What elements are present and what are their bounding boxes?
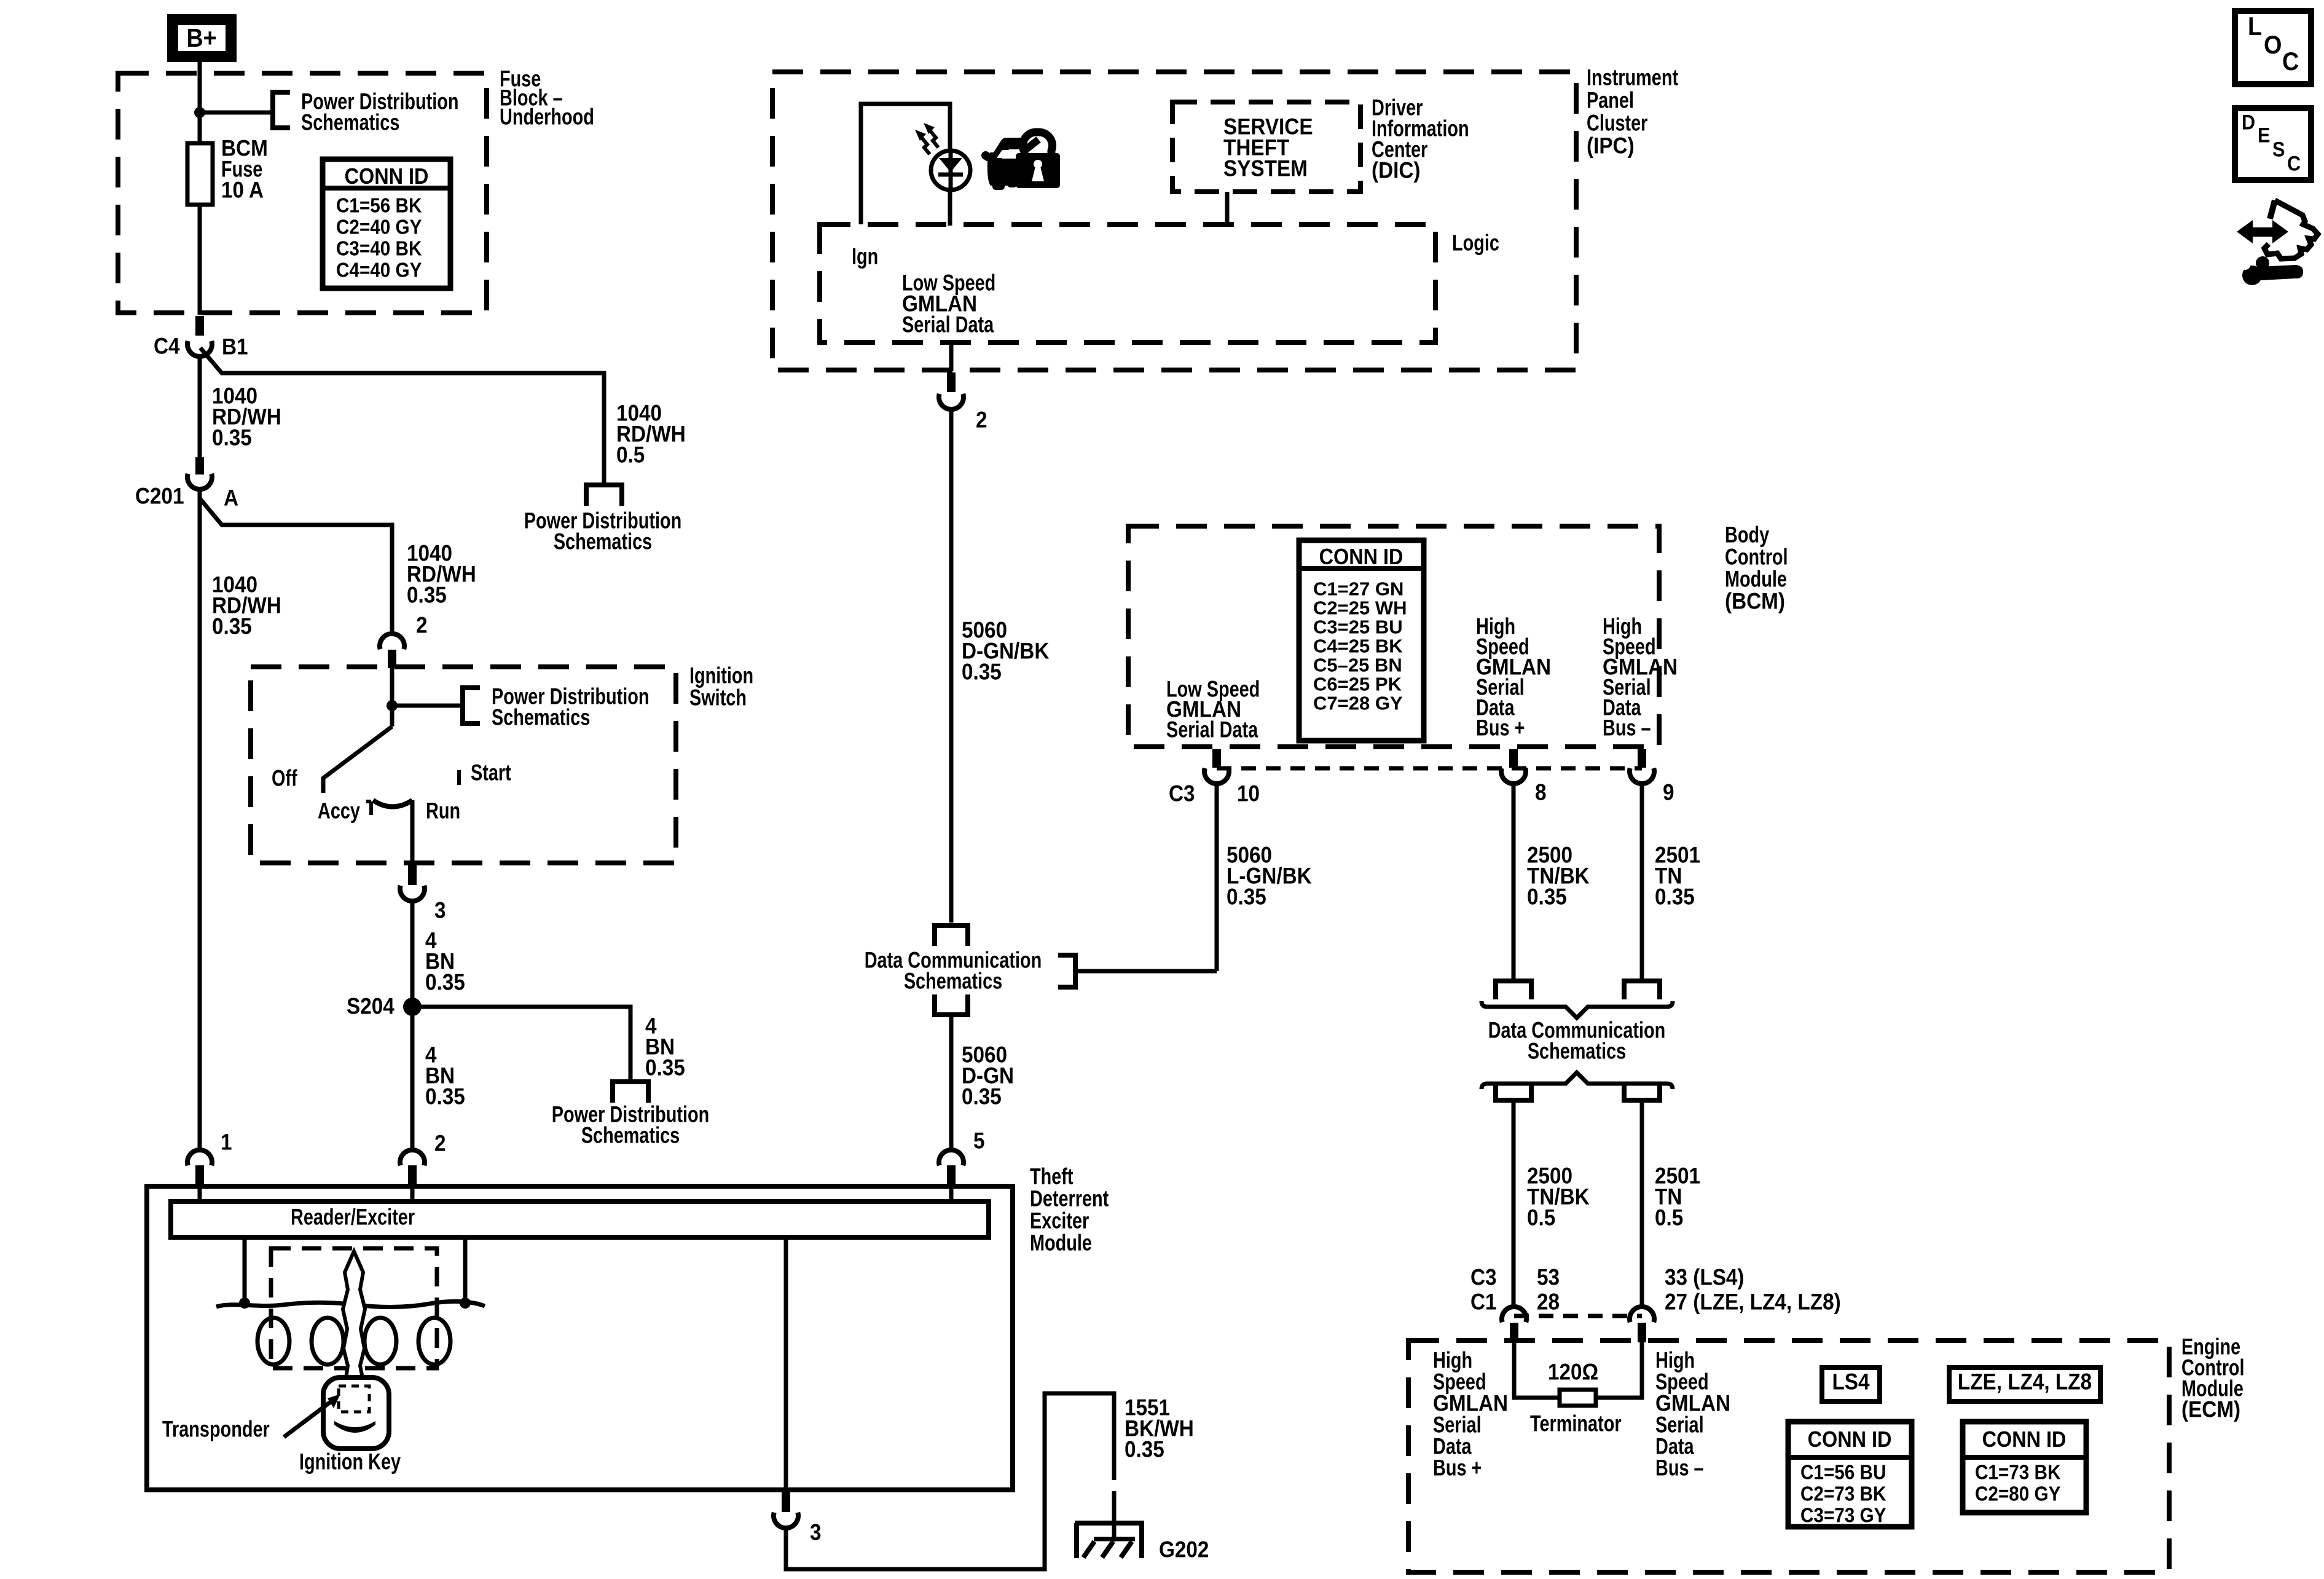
svg-text:Underhood: Underhood — [500, 104, 594, 130]
svg-text:0.35: 0.35 — [425, 1084, 465, 1109]
svg-text:A: A — [224, 486, 238, 511]
svg-text:120Ω: 120Ω — [1548, 1360, 1598, 1385]
svg-text:28: 28 — [1537, 1290, 1560, 1315]
svg-text:C4=40 GY: C4=40 GY — [336, 259, 422, 282]
svg-text:0.5: 0.5 — [1655, 1205, 1683, 1231]
svg-text:8: 8 — [1535, 780, 1547, 805]
svg-text:Schematics: Schematics — [1528, 1039, 1626, 1064]
svg-text:C201: C201 — [135, 484, 184, 509]
svg-text:27 (LZE, LZ4, LZ8): 27 (LZE, LZ4, LZ8) — [1665, 1290, 1841, 1315]
svg-text:Reader/Exciter: Reader/Exciter — [291, 1205, 415, 1230]
svg-text:0.35: 0.35 — [425, 970, 465, 995]
svg-text:S204: S204 — [347, 994, 395, 1019]
svg-text:Terminator: Terminator — [1530, 1411, 1622, 1436]
svg-text:LZE, LZ4, LZ8: LZE, LZ4, LZ8 — [1958, 1369, 2092, 1395]
svg-text:Logic: Logic — [1452, 230, 1499, 256]
svg-text:G202: G202 — [1159, 1537, 1209, 1562]
svg-text:0.5: 0.5 — [1527, 1205, 1555, 1231]
svg-text:C3: C3 — [1169, 781, 1195, 806]
svg-text:C1=56 BK: C1=56 BK — [336, 194, 422, 217]
svg-text:(ECM): (ECM) — [2181, 1397, 2240, 1422]
svg-text:C7=28 GY: C7=28 GY — [1313, 692, 1403, 714]
svg-text:0.35: 0.35 — [1527, 884, 1567, 910]
svg-text:LS4: LS4 — [1832, 1369, 1869, 1395]
svg-text:0.35: 0.35 — [1655, 884, 1695, 910]
svg-text:(BCM): (BCM) — [1725, 589, 1785, 614]
svg-text:C6=25 PK: C6=25 PK — [1313, 673, 1402, 695]
svg-text:C3=73 GY: C3=73 GY — [1800, 1504, 1886, 1527]
svg-text:Serial Data: Serial Data — [1166, 717, 1258, 742]
svg-text:Module: Module — [1030, 1231, 1092, 1256]
svg-text:1: 1 — [221, 1130, 232, 1155]
svg-text:Schematics: Schematics — [904, 969, 1002, 994]
svg-text:O: O — [2264, 31, 2282, 59]
svg-text:Ign: Ign — [852, 244, 878, 269]
svg-text:0.35: 0.35 — [962, 1084, 1002, 1109]
svg-text:C2=73 BK: C2=73 BK — [1800, 1483, 1886, 1505]
svg-text:Transponder: Transponder — [162, 1417, 270, 1442]
svg-text:Instrument: Instrument — [1587, 65, 1678, 90]
svg-text:Panel: Panel — [1587, 88, 1634, 113]
svg-text:10: 10 — [1237, 781, 1260, 806]
svg-text:0.35: 0.35 — [1227, 884, 1266, 910]
svg-text:C4=25 BK: C4=25 BK — [1313, 635, 1403, 656]
svg-text:53: 53 — [1537, 1265, 1560, 1290]
svg-text:10 A: 10 A — [221, 178, 264, 203]
svg-text:B+: B+ — [186, 24, 216, 52]
svg-text:3: 3 — [434, 898, 446, 923]
svg-text:5: 5 — [973, 1128, 985, 1154]
svg-text:Bus +: Bus + — [1476, 715, 1525, 741]
svg-text:(DIC): (DIC) — [1372, 158, 1421, 183]
svg-text:C1=27 GN: C1=27 GN — [1313, 578, 1403, 599]
svg-text:C1: C1 — [1470, 1290, 1497, 1315]
svg-text:E: E — [2258, 124, 2270, 147]
svg-text:2: 2 — [976, 408, 987, 433]
svg-text:Bus +: Bus + — [1433, 1455, 1482, 1481]
svg-text:C5–25 BN: C5–25 BN — [1313, 654, 1402, 675]
svg-text:0.35: 0.35 — [1125, 1437, 1164, 1462]
svg-text:2: 2 — [416, 613, 428, 638]
svg-text:Bus –: Bus – — [1603, 715, 1651, 741]
svg-text:C2=25 WH: C2=25 WH — [1313, 597, 1407, 618]
svg-text:Serial Data: Serial Data — [902, 312, 994, 337]
svg-text:C1=56 BU: C1=56 BU — [1800, 1461, 1886, 1484]
svg-text:0.35: 0.35 — [962, 660, 1002, 685]
svg-text:B1: B1 — [222, 334, 248, 360]
svg-text:0.35: 0.35 — [645, 1055, 685, 1081]
svg-text:Cluster: Cluster — [1587, 111, 1647, 136]
svg-text:Switch: Switch — [689, 685, 747, 711]
svg-text:(IPC): (IPC) — [1587, 133, 1635, 159]
svg-text:Schematics: Schematics — [301, 110, 399, 135]
svg-text:Schematics: Schematics — [581, 1123, 680, 1148]
svg-text:Schematics: Schematics — [492, 705, 590, 730]
svg-text:CONN ID: CONN ID — [1808, 1427, 1892, 1452]
svg-text:3: 3 — [810, 1520, 822, 1545]
svg-text:C2=80 GY: C2=80 GY — [1975, 1483, 2060, 1505]
svg-text:C: C — [2287, 152, 2301, 175]
svg-text:Off: Off — [272, 766, 297, 791]
svg-text:C4: C4 — [154, 334, 180, 359]
svg-text:Accy: Accy — [318, 798, 360, 824]
svg-text:33 (LS4): 33 (LS4) — [1665, 1265, 1745, 1290]
svg-text:C3=40 BK: C3=40 BK — [336, 237, 422, 260]
svg-text:Schematics: Schematics — [554, 529, 652, 554]
svg-text:SYSTEM: SYSTEM — [1223, 156, 1308, 181]
svg-text:Bus –: Bus – — [1655, 1455, 1704, 1481]
svg-text:C3=25 BU: C3=25 BU — [1313, 616, 1403, 637]
svg-text:C3: C3 — [1470, 1265, 1497, 1290]
svg-text:CONN ID: CONN ID — [345, 164, 429, 189]
svg-text:C2=40 GY: C2=40 GY — [336, 216, 422, 238]
svg-text:S: S — [2272, 138, 2285, 161]
svg-text:CONN ID: CONN ID — [1982, 1427, 2067, 1452]
svg-text:D: D — [2242, 111, 2255, 134]
svg-text:0.35: 0.35 — [407, 583, 447, 608]
svg-text:Ignition Key: Ignition Key — [299, 1449, 401, 1475]
svg-text:Start: Start — [471, 760, 511, 786]
svg-text:CONN ID: CONN ID — [1319, 545, 1403, 569]
svg-text:2: 2 — [434, 1131, 446, 1156]
svg-text:9: 9 — [1663, 780, 1674, 805]
svg-text:0.35: 0.35 — [212, 425, 252, 451]
svg-text:C: C — [2282, 47, 2299, 76]
svg-text:L: L — [2248, 12, 2262, 41]
svg-text:C1=73 BK: C1=73 BK — [1975, 1461, 2061, 1484]
svg-text:0.5: 0.5 — [616, 443, 645, 468]
svg-text:Run: Run — [426, 798, 460, 824]
svg-text:0.35: 0.35 — [212, 614, 252, 639]
